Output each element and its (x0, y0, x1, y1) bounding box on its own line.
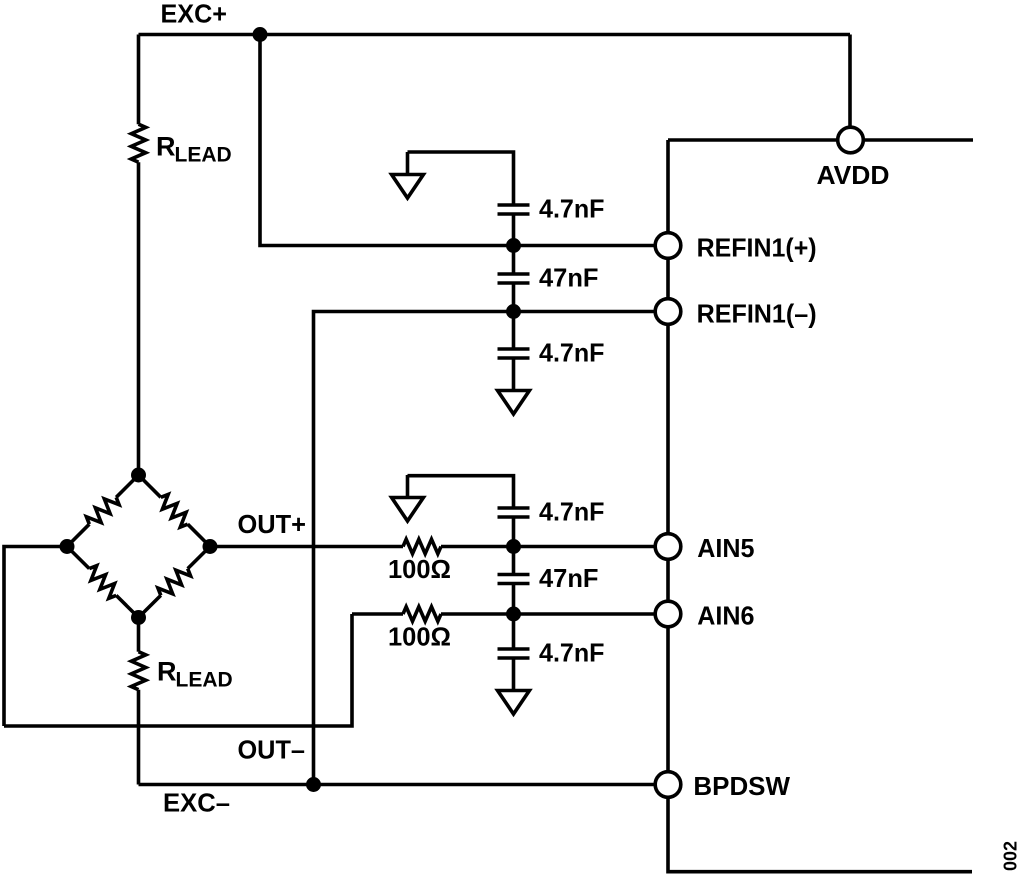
wire 100ohm to AIN6 pin (441, 612, 668, 616)
node EXC+ junction (253, 27, 268, 42)
wire ground2 to cap stack2 top (408, 476, 514, 508)
wire REFIN1(-) row and vertical to EXC- (314, 312, 669, 785)
label R_LEAD top (156, 132, 232, 167)
pin AIN5 (655, 534, 681, 560)
wire bridge bottom to R_LEAD bottom (137, 618, 141, 652)
svg-text:47nF: 47nF (539, 263, 599, 293)
svg-text:AIN5: AIN5 (697, 533, 754, 563)
resistor R_LEAD bottom (131, 652, 146, 690)
wire C5 to C6 (512, 584, 516, 650)
wire AVDD horizontal row (668, 138, 973, 142)
svg-text:4.7nF: 4.7nF (539, 194, 605, 224)
capacitor C1 4.7nF (498, 205, 530, 214)
bridge arm top-left stub2 (67, 524, 89, 546)
resistor R6 100ohm AIN6 (403, 607, 441, 622)
wire bridge left node to left bus (4, 547, 67, 727)
svg-text:REFIN1(+): REFIN1(+) (697, 233, 817, 263)
label R_LEAD bottom (157, 657, 233, 692)
wire R_LEAD to bridge top (137, 162, 141, 475)
wire OUT- bottom bus (4, 614, 352, 726)
node cap stack AIN5 (506, 539, 521, 554)
svg-text:100Ω: 100Ω (388, 554, 451, 584)
svg-text:REFIN1(–): REFIN1(–) (697, 299, 817, 329)
bridge resistor arm bottom-left (84, 563, 121, 600)
bridge arm bottom-left stub2 (116, 595, 138, 617)
capacitor C4 4.7nF (498, 508, 530, 517)
pin AVDD (838, 127, 864, 153)
svg-text:100Ω: 100Ω (388, 622, 451, 652)
resistor R5 100ohm AIN5 (403, 539, 441, 554)
wire ground1 to cap stack top (408, 152, 514, 205)
svg-text:4.7nF: 4.7nF (539, 638, 605, 668)
resistor R_LEAD top (131, 124, 146, 162)
wire REFIN1(+) branch from EXC+ (260, 35, 668, 246)
capacitor C6 4.7nF (498, 649, 530, 658)
svg-text:BPDSW: BPDSW (693, 771, 790, 801)
wire C1 to C2 (512, 214, 516, 274)
svg-text:002: 002 (1001, 841, 1021, 871)
capacitor C5 47nF (498, 575, 530, 584)
wire 100ohm to AIN5 pin (441, 545, 668, 549)
svg-text:AVDD: AVDD (817, 160, 890, 190)
wire EXC+ top horizontal (139, 33, 851, 37)
wire AVDD drop from top wire (848, 35, 852, 141)
svg-text:LEAD: LEAD (176, 669, 233, 692)
svg-text:47nF: 47nF (539, 563, 599, 593)
wire C3 to ground (512, 358, 516, 368)
bridge arm bottom-left stub1 (67, 547, 89, 569)
svg-text:AIN6: AIN6 (697, 601, 754, 631)
bridge resistor arm bottom-right (156, 563, 193, 600)
bridge arm top-left stub1 (116, 475, 138, 497)
wire ADC chip edge vertical and bottom (668, 140, 972, 872)
pin BPDSW (655, 772, 681, 798)
svg-text:OUT–: OUT– (238, 735, 306, 765)
svg-text:OUT+: OUT+ (238, 509, 307, 539)
bridge arm bottom-right stub1 (188, 547, 210, 569)
bridge arm bottom-right stub2 (139, 595, 161, 617)
node cap stack REFIN1(-) (506, 304, 521, 319)
bridge resistor arm top-right (156, 492, 193, 529)
bridge arm top-right stub1 (139, 475, 161, 497)
node cap stack AIN6 (506, 607, 521, 622)
svg-text:R: R (156, 132, 176, 162)
node bridge bottom (131, 610, 146, 625)
capacitor C3 4.7nF (498, 349, 530, 358)
bridge arm top-right stub2 (188, 524, 210, 546)
node EXC- junction (306, 777, 321, 792)
wire OUT+ from bridge right node to 100ohm (210, 545, 403, 549)
wire AIN6 row to 100ohm (352, 612, 403, 616)
svg-text:4.7nF: 4.7nF (539, 497, 605, 527)
ground G3 below C6 (498, 668, 530, 714)
svg-text:LEAD: LEAD (175, 144, 232, 167)
pin AIN6 (655, 601, 681, 627)
node bridge right (203, 539, 218, 554)
svg-text:EXC+: EXC+ (161, 0, 228, 29)
bridge resistor arm top-left (84, 492, 121, 529)
ground G2 (392, 475, 424, 521)
ground G4 below C3 (498, 368, 530, 414)
ground G1 (392, 152, 424, 198)
wire R_LEAD bottom to EXC- (137, 690, 141, 785)
wire left excitation upper segment (137, 35, 141, 125)
node bridge top (131, 468, 146, 483)
node cap stack REFIN1(+) (506, 238, 521, 253)
wire C6 to ground (512, 658, 516, 668)
node bridge left (60, 539, 75, 554)
pin REFIN1(+) (655, 233, 681, 259)
wire EXC- row to BPDSW (139, 783, 669, 787)
svg-text:EXC–: EXC– (163, 788, 230, 818)
pin REFIN1(-) (655, 299, 681, 325)
wire C4 to C5 (512, 517, 516, 575)
wire C2 to C3 (512, 283, 516, 349)
capacitor C2 47nF (498, 274, 530, 283)
svg-text:4.7nF: 4.7nF (539, 338, 605, 368)
svg-text:R: R (157, 657, 177, 687)
